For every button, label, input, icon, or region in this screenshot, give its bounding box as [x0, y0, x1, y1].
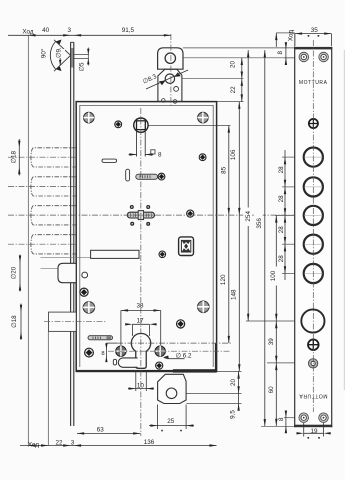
svg-text:120: 120: [220, 274, 227, 285]
svg-text:22: 22: [230, 86, 237, 94]
svg-text:8: 8: [158, 152, 162, 159]
svg-text:91,5: 91,5: [122, 27, 135, 34]
svg-text:28: 28: [278, 255, 285, 263]
svg-text:∅18: ∅18: [11, 315, 18, 328]
svg-text:35: 35: [311, 27, 319, 34]
svg-text:8: 8: [277, 50, 284, 54]
svg-text:20: 20: [230, 61, 237, 69]
svg-text:8: 8: [101, 351, 104, 357]
svg-text:28: 28: [278, 226, 285, 234]
svg-text:∅20: ∅20: [11, 266, 18, 279]
svg-text:85: 85: [221, 166, 228, 174]
svg-text:∅18: ∅18: [11, 150, 18, 163]
svg-text:8: 8: [278, 417, 285, 421]
svg-text:28: 28: [278, 195, 285, 203]
svg-text:∅9: ∅9: [55, 49, 62, 58]
svg-text:22: 22: [55, 439, 63, 446]
svg-text:∅5: ∅5: [79, 62, 86, 71]
svg-text:38: 38: [136, 303, 144, 310]
svg-text:Ход: Ход: [287, 30, 294, 41]
svg-text:17: 17: [136, 318, 144, 325]
svg-text:∅ 6.2: ∅ 6.2: [176, 353, 192, 360]
svg-text:40: 40: [42, 27, 50, 34]
svg-text:60: 60: [268, 386, 275, 394]
svg-text:3: 3: [71, 439, 75, 446]
svg-text:19: 19: [310, 428, 318, 435]
svg-text:25: 25: [167, 418, 175, 425]
svg-text:Ход: Ход: [28, 442, 39, 449]
svg-text:100: 100: [270, 270, 277, 281]
svg-text:356: 356: [256, 218, 263, 229]
svg-text:254: 254: [245, 211, 252, 222]
svg-text:3: 3: [68, 27, 72, 34]
svg-text:9,5: 9,5: [230, 410, 237, 419]
svg-text:39: 39: [268, 338, 275, 346]
svg-text:136: 136: [144, 439, 155, 446]
svg-text:106: 106: [230, 149, 237, 160]
svg-text:63: 63: [97, 427, 105, 434]
svg-text:148: 148: [230, 289, 237, 300]
svg-text:10: 10: [137, 382, 145, 389]
svg-text:Ход: Ход: [22, 29, 33, 36]
svg-text:90°: 90°: [40, 48, 48, 58]
svg-text:20: 20: [230, 379, 237, 387]
svg-text:28: 28: [278, 166, 285, 174]
